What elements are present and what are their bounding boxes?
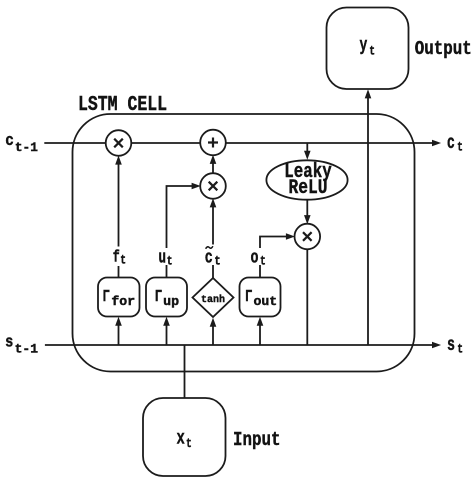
multiply node 2 (u_t x c~_t) (200, 173, 226, 199)
input box x_t (143, 398, 226, 476)
svg-text:t: t (457, 140, 463, 155)
svg-text:s: s (447, 334, 455, 356)
plus node on c line (200, 130, 226, 156)
label f_t (110, 247, 129, 268)
wire c line (c_t-1 to c_t) (44, 140, 441, 147)
wire s line arrow into tanh (210, 318, 217, 345)
svg-text:u: u (159, 249, 167, 269)
svg-text:t: t (167, 255, 173, 269)
svg-text:t: t (260, 255, 266, 269)
LSTM cell boundary box (73, 114, 415, 372)
label o_t (249, 248, 269, 269)
svg-text:t: t (369, 44, 375, 59)
wire u_t riser (gate G_up to multiply node 2) (167, 183, 201, 278)
label c_t (447, 132, 463, 155)
svg-text:s: s (5, 334, 13, 353)
svg-text:t: t (214, 255, 220, 269)
svg-text:Γ: Γ (103, 288, 110, 307)
gate G_for box (98, 278, 140, 317)
svg-text:x: x (177, 427, 185, 449)
svg-text:c: c (447, 132, 455, 154)
multiply node 3 (o_t x LeakyReLU) (295, 224, 321, 250)
wire o_t riser (gate G_out to multiply node 3) (260, 233, 295, 277)
svg-text:t: t (457, 342, 463, 357)
svg-text:t: t (120, 254, 126, 268)
wire s line arrow into gate G_for (115, 317, 122, 345)
wire s line arrow into gate G_out (257, 317, 264, 345)
tanh diamond (193, 278, 234, 317)
wire c line branch down to Leaky ReLU (304, 143, 311, 160)
svg-text:o: o (251, 249, 259, 269)
multiply node 1 on c line (106, 130, 132, 156)
wire x_t input box up to s line (184, 345, 186, 398)
svg-text:Output: Output (415, 38, 472, 60)
wire s line (s_t-1 to s_t) (45, 342, 441, 349)
wire c~_t riser (tanh to multiply node 2) (210, 198, 217, 279)
svg-text:t-1: t-1 (15, 140, 38, 155)
svg-text:LSTM CELL: LSTM CELL (78, 94, 167, 117)
label s_t (447, 334, 463, 357)
Leaky ReLU ellipse (266, 160, 347, 200)
label c~_t (204, 245, 224, 269)
svg-text:t: t (186, 436, 192, 451)
wire multiply node 3 down to s line (306, 249, 308, 345)
svg-text:for: for (111, 294, 135, 309)
svg-text:c: c (5, 132, 14, 151)
svg-text:tanh: tanh (201, 294, 225, 306)
gate G_up box (146, 278, 187, 317)
svg-text:f: f (113, 248, 120, 267)
svg-text:y: y (360, 36, 368, 56)
svg-text:t-1: t-1 (15, 341, 39, 356)
output box y_t (327, 8, 409, 90)
wire multiply node 2 to plus node (210, 155, 217, 174)
svg-text:Γ: Γ (245, 288, 252, 307)
svg-text:out: out (254, 294, 278, 309)
label u_t (157, 248, 175, 269)
svg-text:Γ: Γ (155, 288, 162, 307)
label s_t-1 (5, 334, 38, 357)
gate G_out box (240, 278, 281, 317)
svg-text:c: c (205, 249, 213, 269)
wire Leaky ReLU to multiply node 3 (304, 200, 311, 225)
svg-text:ReLU: ReLU (289, 177, 328, 200)
svg-text:up: up (163, 294, 179, 309)
svg-text:Input: Input (233, 429, 281, 451)
wire s line junction up to y_t output box (365, 89, 372, 345)
wire f_t riser (gate G_for to multiply node) (115, 156, 122, 278)
wire s line arrow into gate G_up (163, 317, 170, 345)
label c_t-1 (5, 132, 38, 155)
